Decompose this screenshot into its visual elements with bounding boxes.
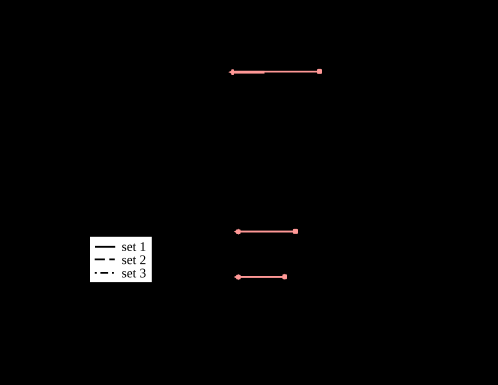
square marker overlapping tail bbox=[236, 229, 241, 234]
legend box bbox=[90, 237, 152, 282]
square marker at head end bbox=[293, 229, 298, 234]
diamond marker at tail bbox=[237, 229, 240, 235]
wire bbox=[237, 231, 294, 233]
diamond marker at tail bbox=[237, 274, 240, 280]
marker diamond overlay at head end bbox=[283, 274, 286, 280]
legend line set 2 (dashed) bbox=[95, 258, 115, 260]
arrowhead bbox=[228, 70, 234, 75]
legend labels bbox=[122, 242, 146, 277]
square marker at head end bbox=[317, 69, 322, 74]
square marker at head end bbox=[282, 274, 287, 279]
arrowhead bbox=[234, 229, 239, 234]
arrow annotation 3 (bottom) bbox=[234, 274, 287, 281]
label set 1 bbox=[122, 242, 145, 251]
label set 3 bbox=[122, 269, 146, 278]
legend line set 1 (solid) bbox=[95, 246, 115, 248]
legend line set 3 (dash-dot) bbox=[95, 272, 114, 274]
arrow annotation 1 (top) bbox=[228, 69, 322, 75]
arrowhead bbox=[234, 275, 239, 280]
arrow annotation 2 (middle) bbox=[234, 229, 298, 235]
label set 2 bbox=[122, 255, 145, 264]
square marker overlapping tail bbox=[236, 275, 241, 280]
wire thin segment bbox=[233, 71, 318, 73]
diamond marker at tail bbox=[231, 69, 234, 75]
wire bbox=[237, 276, 283, 278]
wire thick segment bbox=[231, 71, 265, 74]
